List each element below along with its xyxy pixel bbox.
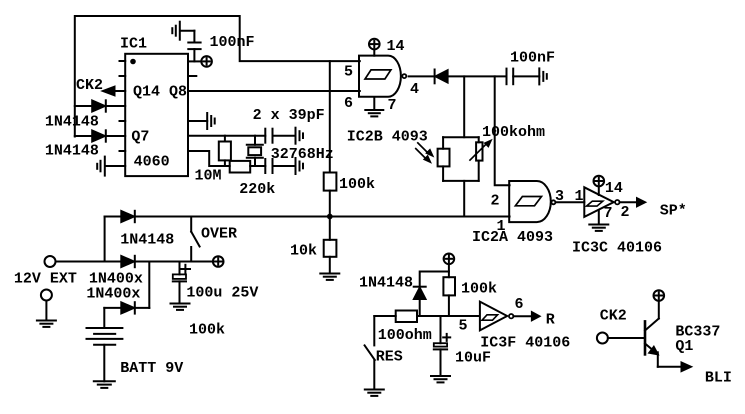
svg-text:IC2B 4093: IC2B 4093 [347, 129, 428, 146]
crystal 32768Hz [247, 136, 263, 166]
potentiometer 100kohm [476, 142, 482, 160]
ground 10uF [431, 376, 450, 382]
wire long node to IC2A pin1 [105, 216, 510, 218]
wire IC2A out to IC3C [556, 201, 585, 203]
diode 1N4148 reset (points up) [414, 287, 426, 316]
capacitor 39pF top [265, 129, 295, 143]
capacitor 100nF right [507, 69, 540, 85]
svg-text:RES: RES [376, 349, 403, 366]
wire R output arrow [513, 312, 539, 320]
svg-text:CK2: CK2 [600, 308, 627, 325]
wire pullup top [448, 264, 450, 277]
plus sign 100u [181, 265, 190, 274]
wire bus down [104, 217, 106, 262]
svg-text:100nF: 100nF [210, 34, 255, 51]
IC1 right ground pin [188, 113, 215, 129]
wire battery branch vertical [148, 262, 150, 308]
supply plus IC1 [201, 56, 212, 67]
wire 10k to ground [329, 257, 331, 274]
plus sign 10uF [443, 334, 450, 341]
svg-text:4: 4 [410, 81, 419, 98]
terminal 12V EXT [45, 256, 56, 267]
svg-text:IC2A 4093: IC2A 4093 [472, 229, 553, 246]
svg-text:CK2: CK2 [76, 77, 103, 94]
ground 100u [171, 304, 190, 310]
diode 1N4148 D1 [92, 100, 106, 111]
wire battery branch horizontal [104, 307, 149, 309]
svg-text:2 x 39pF: 2 x 39pF [253, 107, 325, 124]
svg-text:BATT 9V: BATT 9V [120, 360, 183, 377]
pot arrow [470, 140, 492, 160]
svg-text:5: 5 [459, 318, 468, 335]
ground 39pF top [296, 128, 304, 144]
svg-text:10uF: 10uF [455, 350, 491, 367]
IC2B pin7 ground [365, 97, 383, 116]
svg-text:1N4148: 1N4148 [359, 275, 413, 292]
svg-text:IC3C 40106: IC3C 40106 [572, 240, 662, 257]
wire to LDR network [463, 76, 465, 137]
svg-text:Q7: Q7 [131, 129, 149, 146]
IC2B output bubble [402, 74, 406, 78]
LDR box [438, 149, 450, 167]
svg-text:100nF: 100nF [510, 50, 555, 67]
svg-text:7: 7 [604, 205, 613, 222]
supply plus IC3C [594, 176, 605, 195]
wire IC1 pin4 diode feed [75, 105, 125, 107]
IC1 pin16 supply wire [188, 60, 201, 62]
IC3C schmitt symbol [587, 201, 603, 206]
wire terminal to ground [45, 301, 47, 321]
ground 12V return [37, 321, 56, 327]
IC2A gate body [509, 181, 551, 222]
svg-text:IC3F 40106: IC3F 40106 [480, 335, 570, 352]
IC3F output bubble [509, 314, 513, 318]
wire oscillator top [188, 135, 265, 137]
svg-text:IC1: IC1 [120, 36, 147, 53]
capacitor 39pF bottom [265, 159, 295, 173]
svg-text:1N4148: 1N4148 [45, 143, 99, 160]
capacitor 10uF [434, 316, 447, 376]
resistor 220k [230, 161, 251, 173]
svg-text:100u 25V: 100u 25V [186, 285, 258, 302]
svg-text:4060: 4060 [134, 154, 170, 171]
diode 1N4148 D2 [92, 130, 106, 141]
wire LDR bottom tap [463, 181, 465, 217]
diode 1N400x bottom [121, 302, 135, 313]
IC3F schmitt symbol [482, 315, 498, 320]
IC3C output bubble [615, 200, 619, 204]
node junction dot [327, 214, 333, 220]
svg-text:5: 5 [344, 64, 353, 81]
terminal 12V return [41, 290, 52, 301]
svg-text:100kohm: 100kohm [482, 124, 545, 141]
wire 100k to junction [329, 191, 331, 240]
IC2B schmitt symbol [365, 70, 391, 79]
IC1 pin1 dot [130, 59, 136, 65]
svg-text:Q1: Q1 [675, 338, 693, 355]
wire IC1 pin6 diode feed [75, 135, 125, 137]
IC1 left pin stubs [120, 60, 126, 62]
capacitor 100nF decoupling [180, 31, 200, 62]
battery BATT 9V [87, 308, 123, 381]
ground RES [365, 390, 384, 396]
wire Q8 to IC2B pin6 [188, 90, 360, 92]
IC3F inverter triangle [480, 302, 507, 331]
supply plus 12V rail [213, 256, 224, 267]
wire oscillator bottom [188, 151, 230, 166]
switch OVER [191, 218, 199, 262]
wire base [608, 337, 645, 339]
wire IC2B inputs tie [329, 61, 331, 172]
switch RES [365, 316, 375, 390]
ground 10k [320, 274, 339, 280]
diode 1N4148 bypass [121, 211, 135, 222]
node CK2 arrow [103, 87, 125, 96]
IC2B gate body [359, 56, 401, 97]
wire 12V rail [56, 261, 213, 263]
svg-text:1N4148: 1N4148 [45, 113, 99, 130]
supply plus IC3F pullup [444, 253, 455, 264]
svg-text:Q14: Q14 [133, 84, 160, 101]
svg-text:1N4148: 1N4148 [120, 232, 174, 249]
svg-text:3: 3 [555, 188, 564, 205]
wire to IC2A pin2 [495, 76, 510, 185]
svg-text:BLI: BLI [705, 370, 732, 387]
supply plus IC2B [369, 39, 380, 56]
wire top-left bus [75, 16, 360, 137]
ground battery [94, 381, 115, 388]
LDR network loop [443, 137, 479, 181]
wire diode to cap [448, 75, 507, 77]
svg-text:32768Hz: 32768Hz [271, 146, 334, 163]
svg-text:1N400x: 1N400x [86, 286, 140, 303]
LDR light arrows [416, 143, 434, 163]
svg-text:10M: 10M [195, 168, 222, 185]
resistor 100k pullup [443, 277, 455, 316]
svg-text:Q8: Q8 [169, 84, 187, 101]
transistor Q1 BC337 [645, 301, 691, 371]
IC3C pin7 ground [589, 211, 608, 231]
IC2A output bubble [551, 200, 555, 204]
svg-text:100k: 100k [339, 176, 375, 193]
svg-text:6: 6 [344, 95, 353, 112]
svg-text:14: 14 [605, 180, 623, 197]
resistor 10M [219, 136, 231, 166]
svg-text:12V EXT: 12V EXT [14, 271, 77, 288]
svg-text:100k: 100k [189, 322, 225, 339]
svg-text:1: 1 [575, 188, 584, 205]
IC1 body 4060 [125, 54, 188, 176]
IC3C inverter triangle [584, 187, 613, 217]
svg-text:2: 2 [621, 204, 630, 221]
capacitor 100u 25V [173, 262, 186, 304]
terminal CK2 Q1 [597, 333, 608, 344]
wire SP* output arrow [620, 198, 646, 206]
resistor 10k [324, 240, 337, 257]
svg-text:14: 14 [387, 38, 405, 55]
svg-text:SP*: SP* [660, 203, 687, 220]
svg-text:6: 6 [515, 296, 524, 313]
svg-text:R: R [546, 312, 555, 329]
svg-text:10k: 10k [290, 243, 317, 260]
diode output (points left) [435, 70, 448, 84]
ground 100nF right [539, 68, 547, 84]
svg-text:100ohm: 100ohm [378, 327, 432, 344]
IC2A schmitt symbol [515, 197, 541, 206]
IC1 left ground pin [97, 157, 125, 176]
resistor 100ohm [396, 311, 417, 323]
wire IC2B output [409, 75, 435, 77]
IC1 right stub pin [188, 75, 196, 77]
svg-text:OVER: OVER [201, 226, 237, 243]
svg-text:100k: 100k [461, 281, 497, 298]
wire RES node [374, 315, 395, 317]
svg-text:7: 7 [388, 97, 397, 114]
diode 1N400x top [121, 256, 135, 267]
supply plus Q1 [654, 290, 665, 301]
ground 39pF bottom [296, 158, 304, 174]
resistor 100k mid [324, 173, 337, 191]
svg-text:2: 2 [491, 193, 500, 210]
svg-text:220k: 220k [239, 181, 275, 198]
ground for 100nF [172, 22, 180, 40]
wire node5 [417, 315, 479, 317]
